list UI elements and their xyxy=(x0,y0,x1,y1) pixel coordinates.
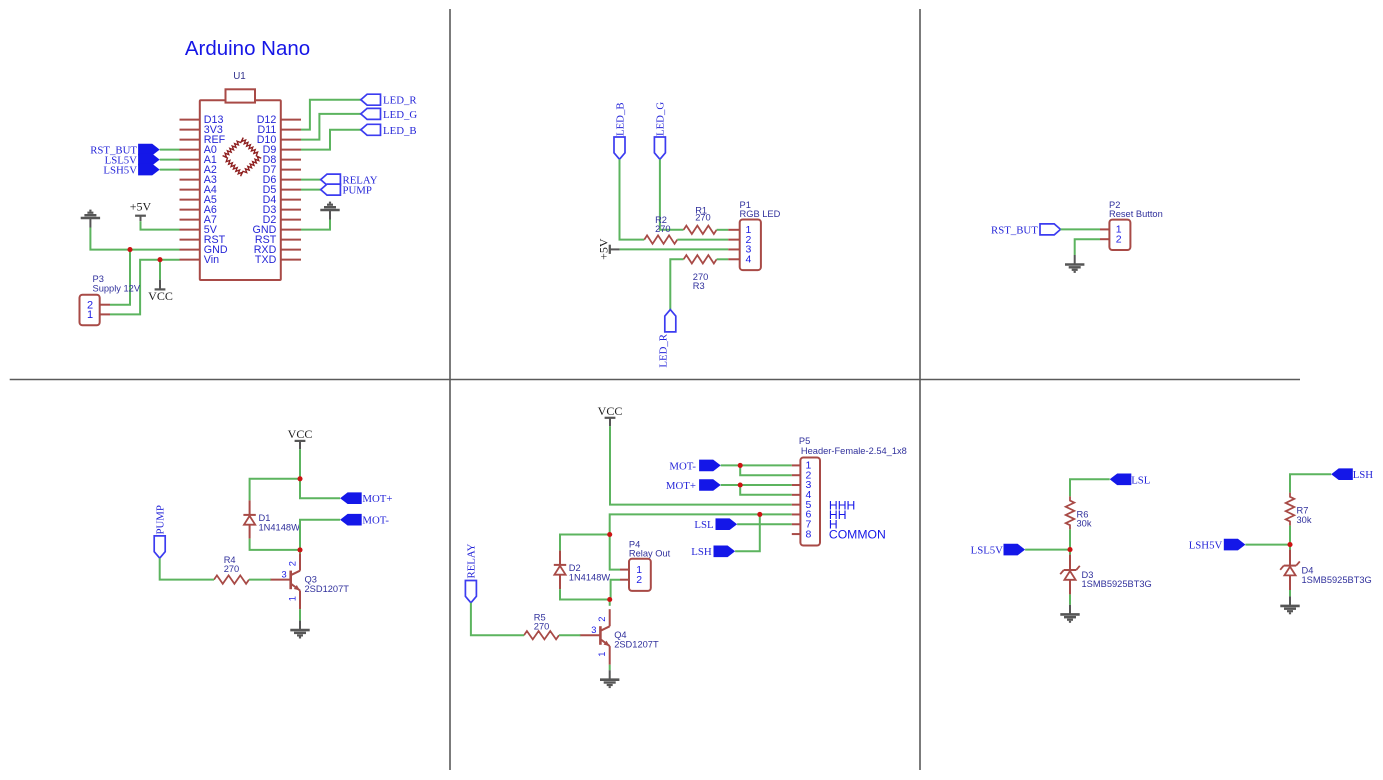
U1 pin D6 (right) xyxy=(263,174,301,186)
U1 pin A3 (left) xyxy=(180,174,217,186)
ground (Q3) xyxy=(290,621,309,638)
U1 pin Vin (left) xyxy=(180,254,220,266)
U1 pin 5V (left) xyxy=(180,224,218,236)
ground (Q4) xyxy=(600,670,619,687)
net flag MOT+ xyxy=(340,492,392,505)
junction LSL5V node xyxy=(1067,547,1072,552)
wire U1 to LED_G xyxy=(301,114,361,140)
wire VCC to P5 pin5 xyxy=(610,426,792,505)
svg-text:Arduino Nano: Arduino Nano xyxy=(185,37,310,60)
wire P4 pin2 down xyxy=(611,580,620,600)
wire LSL5V to node xyxy=(1025,549,1070,551)
net flag LSL (region5) xyxy=(694,518,737,531)
svg-text:1: 1 xyxy=(597,652,607,657)
MCU U1 reference label xyxy=(233,71,246,82)
wire +5V to P1 pin3 xyxy=(620,248,729,250)
wire U1 to LED_R xyxy=(301,100,361,130)
svg-text:Vin: Vin xyxy=(204,254,219,266)
U1 pin A1 (left) xyxy=(180,154,217,166)
svg-text:Relay Out: Relay Out xyxy=(629,549,671,559)
U1 pin A4 (left) xyxy=(180,184,217,196)
U1 pin A0 (left) xyxy=(180,144,217,156)
svg-text:P5: P5 xyxy=(799,436,810,446)
U1 pin 3V3 (left) xyxy=(180,124,223,136)
svg-text:1: 1 xyxy=(87,309,93,321)
connector P1 RGB LED xyxy=(728,220,761,271)
net flag RST_BUT xyxy=(90,144,159,157)
net flag PUMP xyxy=(321,184,372,197)
svg-text:LSH: LSH xyxy=(691,546,712,558)
wire VCC node to MOT+ xyxy=(300,479,340,498)
svg-text:U1: U1 xyxy=(233,71,246,82)
wire R2 to P1 pin2 xyxy=(677,239,728,241)
svg-text:TXD: TXD xyxy=(255,254,277,266)
svg-text:+5V: +5V xyxy=(596,238,610,260)
net flag RELAY xyxy=(321,174,378,187)
connector P4 labels xyxy=(629,539,671,558)
svg-text:RGB LED: RGB LED xyxy=(740,209,781,219)
wire RST_BUT to P2 pin1 xyxy=(1061,228,1101,230)
wire R3 to P1 pin4 xyxy=(717,258,729,260)
connector P2 labels xyxy=(1109,200,1163,219)
junction LSH5V node xyxy=(1287,542,1292,547)
svg-text:VCC: VCC xyxy=(598,404,623,418)
net flag RST_BUT (region3) xyxy=(991,224,1060,236)
power +5V symbol xyxy=(130,200,152,222)
net flag LED_G xyxy=(361,108,418,121)
svg-text:MOT-: MOT- xyxy=(669,460,696,472)
U1 pin D5 (right) xyxy=(263,184,301,196)
resistor R6 xyxy=(1066,496,1092,529)
wire MOT+ to P5 pin3 xyxy=(721,484,792,486)
svg-text:2: 2 xyxy=(597,617,607,622)
net flag LED_R xyxy=(361,94,418,107)
svg-text:R3: R3 xyxy=(693,281,705,291)
net flag LSL xyxy=(1110,474,1151,487)
svg-text:270: 270 xyxy=(695,213,711,223)
svg-text:LED_R: LED_R xyxy=(658,333,670,367)
wire R7 to node xyxy=(1289,526,1291,545)
svg-text:RELAY: RELAY xyxy=(466,543,478,578)
svg-text:4: 4 xyxy=(746,253,752,265)
wire D2 bottom xyxy=(560,589,610,599)
wire R5 to Q4 base xyxy=(559,634,580,636)
net flag LSL5V xyxy=(105,154,160,167)
net flag LED_R (bottom) xyxy=(658,310,676,368)
wire relay node to D2 top xyxy=(560,535,610,551)
wire junction to P3 pin2 xyxy=(110,250,130,305)
wire Q3 emitter to ground xyxy=(299,609,301,621)
svg-text:LSH5V: LSH5V xyxy=(103,165,137,177)
wire MOT- to P5 pin1 xyxy=(721,464,792,466)
net label COMMON xyxy=(829,528,886,542)
MCU U1 chip diamond xyxy=(223,138,262,177)
net flag LED_B (top) xyxy=(614,102,626,159)
wire LSL to P5 pin7 xyxy=(737,523,792,525)
junction collector node xyxy=(297,547,302,552)
net flag PUMP xyxy=(154,505,166,558)
connector P5 Header-Female-2.54_1x8 xyxy=(792,458,820,546)
svg-text:LED_G: LED_G xyxy=(655,102,667,136)
U1 pin D7 (right) xyxy=(263,164,301,176)
connector P3 labels xyxy=(93,274,141,294)
junction relay node top xyxy=(607,532,612,537)
wire P3 pin1 to U1 Vin xyxy=(110,260,180,315)
MCU U1 USB connector box xyxy=(226,89,256,102)
wire LSL to R6 xyxy=(1070,479,1110,496)
svg-text:Supply 12V: Supply 12V xyxy=(93,283,141,293)
U1 pin D4 (right) xyxy=(263,194,301,206)
transistor Q4 xyxy=(580,609,659,665)
wire U1 GND right xyxy=(301,220,330,230)
connector P2 Reset Button xyxy=(1100,220,1130,250)
svg-text:LSL: LSL xyxy=(1131,474,1150,486)
connector P5 labels xyxy=(799,436,907,456)
transistor Q3 xyxy=(270,554,349,610)
wire LSH5V to U1 xyxy=(160,169,180,171)
wire D3 to ground xyxy=(1069,594,1071,605)
svg-text:COMMON: COMMON xyxy=(829,528,886,542)
U1 pin D3 (right) xyxy=(263,204,301,216)
net flag RELAY (region5) xyxy=(465,543,477,602)
wire LSH to R7 xyxy=(1290,474,1331,492)
wire LSH5V to node xyxy=(1245,544,1290,546)
U1 pin TXD (right) xyxy=(255,254,301,266)
resistor R3 xyxy=(684,255,717,291)
svg-text:LED_B: LED_B xyxy=(383,125,417,137)
U1 pin D12 (right) xyxy=(257,114,301,126)
wire U1 to LED_B xyxy=(301,130,361,150)
wire D4 to ground xyxy=(1289,590,1291,596)
svg-text:270: 270 xyxy=(655,224,671,234)
svg-text:VCC: VCC xyxy=(148,289,173,303)
junction GND/P3 xyxy=(127,247,132,252)
svg-text:2SD1207T: 2SD1207T xyxy=(305,584,350,594)
title Arduino Nano xyxy=(185,37,310,60)
ground (U1 left) xyxy=(81,211,100,228)
wire LED_B to R2 xyxy=(620,159,645,239)
resistor R4 xyxy=(214,555,249,584)
U1 pin A5 (left) xyxy=(180,194,217,206)
net flag LSH5V xyxy=(1189,539,1246,552)
net flag LSH xyxy=(1331,468,1373,481)
svg-text:3: 3 xyxy=(282,569,287,579)
svg-text:MOT-: MOT- xyxy=(362,515,389,527)
U1 pin D9 (right) xyxy=(263,144,301,156)
net flag LSH5V xyxy=(103,164,159,177)
connector P4 Relay Out xyxy=(620,559,651,591)
svg-text:30k: 30k xyxy=(1297,515,1312,525)
junction VCC node xyxy=(297,476,302,481)
svg-text:1N4148W: 1N4148W xyxy=(259,523,301,533)
svg-text:3: 3 xyxy=(591,625,596,635)
wire D1 bottom xyxy=(250,539,300,550)
U1 pin GND (right) xyxy=(253,224,301,236)
resistor R5 xyxy=(524,612,559,639)
zener diode D3 xyxy=(1060,550,1152,595)
wire LSH up to pin6 rail xyxy=(735,514,760,551)
wire GND rail xyxy=(90,228,179,250)
junction LSH branch xyxy=(757,512,762,517)
diode D1 xyxy=(243,500,300,538)
U1 pin RXD (right) xyxy=(254,244,301,256)
net flag LED_B xyxy=(361,124,417,137)
wire LED_R to R3 xyxy=(670,259,683,309)
svg-text:2: 2 xyxy=(636,574,642,586)
svg-text:PUMP: PUMP xyxy=(155,505,167,534)
ground (D4) xyxy=(1280,596,1299,613)
wire VCC node to D1 top xyxy=(250,479,300,501)
svg-text:1SMB5925BT3G: 1SMB5925BT3G xyxy=(1082,579,1152,589)
svg-text:2: 2 xyxy=(288,561,298,566)
junction MOT- branch xyxy=(738,463,743,468)
svg-text:MOT+: MOT+ xyxy=(666,480,696,492)
U1 pin D2 (right) xyxy=(263,214,301,226)
svg-text:RST_BUT: RST_BUT xyxy=(991,224,1038,236)
wire VCC down xyxy=(299,449,301,479)
power +5V symbol (region2) xyxy=(596,238,619,260)
svg-text:Header-Female-2.54_1x8: Header-Female-2.54_1x8 xyxy=(801,446,907,456)
wire RELAY to R5 xyxy=(471,603,524,635)
svg-text:30k: 30k xyxy=(1077,519,1092,529)
wire MOT- to collector node xyxy=(300,520,340,550)
wire collector node down xyxy=(299,550,301,554)
svg-text:1SMB5925BT3G: 1SMB5925BT3G xyxy=(1302,575,1372,585)
svg-text:2SD1207T: 2SD1207T xyxy=(614,639,659,649)
junction Q4 collector node xyxy=(607,597,612,602)
power VCC symbol (region5) xyxy=(598,404,623,426)
U1 pin GND (left) xyxy=(180,244,228,256)
svg-text:LSH: LSH xyxy=(1353,469,1374,481)
wire Q4 emitter to ground xyxy=(609,665,611,671)
resistor R2 xyxy=(644,215,677,244)
U1 pin RST (right) xyxy=(255,234,301,246)
MCU U1 body xyxy=(200,100,281,280)
svg-text:P3: P3 xyxy=(93,274,104,284)
wire pin6 rail xyxy=(610,514,792,534)
wire LED_G to R1 xyxy=(660,159,684,230)
U1 pin A7 (left) xyxy=(180,214,217,226)
power VCC symbol (region1) xyxy=(148,260,173,303)
ground (D3) xyxy=(1060,605,1079,622)
svg-text:LSL: LSL xyxy=(694,519,713,531)
svg-text:8: 8 xyxy=(806,528,812,540)
wire R6 to node xyxy=(1069,529,1071,549)
svg-text:1: 1 xyxy=(288,596,298,601)
net flag MOT- (region5) xyxy=(669,460,720,473)
U1 pin D8 (right) xyxy=(263,154,301,166)
connector P1 labels xyxy=(740,200,781,219)
net label HHH xyxy=(829,499,855,513)
net flag MOT- xyxy=(340,514,389,527)
svg-text:2: 2 xyxy=(1116,233,1122,245)
svg-text:270: 270 xyxy=(224,564,240,574)
ground (U1 right) xyxy=(320,203,339,220)
svg-text:LED_R: LED_R xyxy=(383,95,417,107)
ground (P2) xyxy=(1065,255,1084,272)
svg-text:+5V: +5V xyxy=(130,200,152,214)
svg-text:MOT+: MOT+ xyxy=(362,493,392,505)
svg-text:1N4148W: 1N4148W xyxy=(569,573,611,583)
U1 pin A6 (left) xyxy=(180,204,217,216)
resistor R7 xyxy=(1286,493,1312,526)
wire R1 to P1 pin1 xyxy=(717,229,729,231)
wire relay node to P4 pin1 xyxy=(610,535,620,570)
svg-text:PUMP: PUMP xyxy=(343,185,372,197)
wire U1 to RELAY xyxy=(301,179,321,181)
wire PUMP to R4 xyxy=(160,558,214,579)
net flag LSL5V xyxy=(971,544,1026,557)
svg-text:LED_B: LED_B xyxy=(614,102,626,136)
svg-text:VCC: VCC xyxy=(288,427,313,441)
wire +5V to U1 5V xyxy=(141,221,180,229)
wire P2 pin2 to ground xyxy=(1075,239,1100,255)
net label H xyxy=(829,518,838,532)
U1 pin D13 (left) xyxy=(180,114,224,126)
P3 pin 2 xyxy=(100,304,110,306)
connector P3 Supply 12V xyxy=(80,295,100,326)
junction MOT+ branch xyxy=(738,482,743,487)
zener diode D4 xyxy=(1280,545,1372,590)
net flag LED_G (top) xyxy=(654,102,666,160)
junction Vin/VCC xyxy=(157,257,162,262)
U1 pin REF (left) xyxy=(180,134,226,146)
P3 pin 1 xyxy=(100,313,110,315)
svg-text:LSH5V: LSH5V xyxy=(1189,540,1223,552)
diode D2 xyxy=(554,551,611,590)
wire MOT+ to P5 pin4 xyxy=(740,485,792,495)
net flag MOT+ (region5) xyxy=(666,479,721,492)
svg-text:LSL5V: LSL5V xyxy=(971,545,1004,557)
svg-text:Reset Button: Reset Button xyxy=(1109,209,1163,219)
resistor R1 xyxy=(684,206,717,234)
net label HH xyxy=(829,508,847,522)
U1 pin A2 (left) xyxy=(180,164,217,176)
wire LSL5V to U1 xyxy=(160,159,180,161)
net flag LSH (region5) xyxy=(691,546,735,559)
wire U1 to PUMP xyxy=(301,189,321,191)
power VCC symbol (region4) xyxy=(288,427,313,449)
U1 pin D10 (right) xyxy=(257,134,301,146)
wire collector node down (Q4) xyxy=(609,600,611,606)
wire R4 to Q3 base xyxy=(249,579,271,581)
U1 pin RST (left) xyxy=(180,234,226,246)
svg-text:LED_G: LED_G xyxy=(383,109,417,121)
svg-text:270: 270 xyxy=(534,622,550,632)
wire MOT- to P5 pin2 xyxy=(740,465,792,475)
U1 pin D11 (right) xyxy=(257,124,301,136)
wire RST_BUT to U1 xyxy=(160,149,180,151)
